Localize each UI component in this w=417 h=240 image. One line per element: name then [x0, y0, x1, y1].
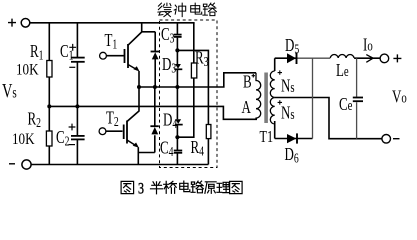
svg-text:Vo: Vo — [392, 88, 407, 108]
svg-text:10K: 10K — [12, 131, 35, 148]
svg-text:B: B — [243, 73, 252, 93]
svg-text:Io: Io — [363, 36, 373, 56]
svg-text:A: A — [242, 98, 252, 118]
svg-text:10K: 10K — [16, 61, 39, 78]
svg-text:3: 3 — [138, 180, 144, 198]
svg-text:Ce: Ce — [339, 95, 353, 115]
svg-text:Le: Le — [336, 61, 349, 81]
svg-text:T1: T1 — [260, 128, 274, 146]
svg-text:Ns: Ns — [281, 104, 295, 124]
svg-text:Ns: Ns — [281, 77, 295, 97]
